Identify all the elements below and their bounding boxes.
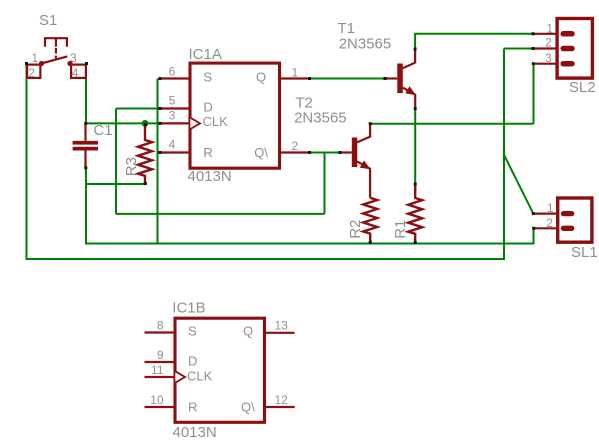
wire: C1 bottom down to ground bus [85,168,87,245]
T1 emitter arrow [405,86,416,95]
switch S1 [27,38,86,78]
wire: SL2 pin3 vertical [533,64,535,124]
S1 actuator stem [55,38,57,47]
pin endpoint tick SL2 pin1 [532,32,535,35]
wire: ground bus horizontal [86,243,534,245]
pin endpoint tick C1 top [84,122,87,125]
svg-text:9: 9 [157,348,164,362]
wire: up to SL1 pin2 [533,228,535,244]
IC1A pin 6 stub (S) [160,77,190,79]
pin endpoint tick T1 collector [414,48,417,51]
pin endpoint tick R1 bottom [414,241,417,244]
pin endpoint tick T2 base [339,151,342,154]
pin endpoint tick SL2 pin2 [532,47,535,50]
svg-text:3: 3 [545,51,552,65]
IC1B pin 12 stub (Q\) [265,406,295,408]
svg-text:8: 8 [157,319,164,333]
svg-text:Q: Q [243,324,253,339]
pin endpoint tick R3 top [144,123,147,126]
wire: diagonal to SL1 pin1 [504,155,533,214]
svg-text:2: 2 [28,66,35,80]
IC1A body box [190,63,280,168]
IC1B CLK triangle [175,371,185,382]
svg-text:3: 3 [70,51,77,65]
svg-text:IC1B: IC1B [172,300,205,317]
svg-text:13: 13 [275,319,289,333]
T2 base lead [340,151,352,153]
svg-text:11: 11 [151,363,164,377]
SL2 pin2 contact bar [563,46,572,52]
pin endpoint tick R3 bottom [144,182,147,185]
C1 top plate [73,141,98,145]
svg-text:R1: R1 [392,220,409,239]
IC1A CLK triangle [190,118,200,129]
resistor R2 [363,198,377,242]
pin endpoint tick T1 emitter [414,107,417,110]
T2 emitter lead [357,162,370,198]
svg-text:SL1: SL1 [571,244,598,261]
S1 pin2 box [27,65,40,78]
svg-text:S1: S1 [39,12,57,29]
wire: S1 pin2 down left side [26,64,28,260]
svg-text:5: 5 [169,94,176,108]
pin endpoint tick C1 bottom [84,166,87,169]
SL2 pin2 stub [533,47,557,49]
svg-text:D: D [188,353,197,368]
pin endpoint tick T2 collector [369,122,372,125]
IC1A 4013N flip-flop [160,63,310,168]
IC1A pin 4 stub (R) [160,151,190,153]
svg-text:1: 1 [292,66,299,80]
SL1 pin2 contact bar [564,226,572,231]
IC1B pin 13 stub (Q) [265,332,295,334]
pin endpoint tick R1 top [414,183,417,186]
SL2 pin1 contact bar [563,31,572,37]
svg-text:4013N: 4013N [173,424,217,441]
IC1B body box [175,318,265,422]
pin endpoint tick R2 bottom [369,241,372,244]
SL2 body box [557,19,592,79]
S1 lever pin1 to over pin3 [41,56,68,63]
wire: T1 collector to SL2 pin1 [414,33,533,35]
T2 emitter arrow [360,160,371,169]
C1 bottom lead [84,150,86,168]
pin endpoint tick IC1A pin4 [159,151,162,154]
IC1B pin 10 stub (R) [145,406,176,408]
svg-text:S: S [188,324,197,339]
pin endpoint tick IC1A pin1 [308,77,311,80]
pin endpoint tick T1 base [384,77,387,80]
svg-text:R: R [203,145,212,160]
transistor T2 2N3565 [340,124,370,198]
junction dot on CLK net at R3 top [142,120,149,127]
C1 top lead [84,123,86,140]
svg-text:Q\: Q\ [241,399,255,414]
svg-text:2: 2 [292,139,299,153]
pin endpoint tick SL1 pin1 [532,212,535,215]
svg-text:12: 12 [275,393,289,407]
S1 actuator bracket [45,38,67,47]
S1 contact dot pin1 [39,61,44,66]
pin endpoint tick IC1A pin5 [159,107,162,110]
svg-text:2: 2 [545,36,552,50]
capacitor C1 [73,123,98,167]
wire: ground-right bus bottom to SL2 pin2 net [26,258,505,260]
svg-text:2N3565: 2N3565 [294,110,347,127]
IC1B pin 8 stub (S) [145,331,176,333]
connector SL1 [533,198,592,242]
wire: CLK net horizontal C1 to IC1A pin3 [86,122,160,124]
SL1 pin1 stub [533,213,558,215]
T2 base bar [352,138,358,168]
wire: vertical up to SL2 pin2 [503,49,505,261]
svg-text:1: 1 [546,21,553,35]
C1 bottom plate [73,147,98,151]
SL1 body box [558,198,592,242]
svg-text:2: 2 [546,216,553,230]
IC1A pin 1 stub (Q) [280,77,310,79]
wire: T1 emitter down to R1 [414,109,416,184]
connector SL2 [533,19,593,79]
SL2 pin3 contact bar [563,61,572,67]
wire: branch up to Q\ line [324,153,326,214]
IC1B pin 11 stub (CLK) [145,376,176,378]
T1 emitter lead [403,88,415,109]
pin endpoint tick SL1 pin2 [532,227,535,230]
svg-text:4013N: 4013N [188,168,232,185]
wire: D pin horizontal [116,108,160,110]
svg-text:CLK: CLK [203,114,229,129]
T1 base lead [385,77,397,79]
svg-text:4: 4 [169,138,176,152]
svg-text:2N3565: 2N3565 [339,35,392,52]
S1 actuator dashed link [55,48,57,54]
T1 collector lead [403,49,415,68]
wire: D net vertical down [115,109,117,214]
SL1 pin2 stub [534,227,558,229]
S1 pin4 box [71,65,86,78]
svg-text:1: 1 [547,201,554,215]
pin endpoint tick SL2 pin3 [532,62,535,65]
wire: T1 collector up [414,34,416,49]
pin endpoint tick S1 pin2 [25,62,28,65]
wire: C1 bottom to R3 bottom [86,183,145,185]
svg-text:6: 6 [169,65,176,79]
transistor T1 2N3565 [385,49,416,109]
wire: Q pin to T1 base [310,78,385,80]
wire: T2 collector to SL2 pin3 [370,123,533,125]
svg-text:R3: R3 [123,157,140,176]
svg-text:R2: R2 [347,220,364,239]
IC1A pin 3 stub (CLK) [160,122,190,124]
svg-text:3: 3 [169,109,176,123]
pin endpoint tick IC1A pin6 [159,77,162,80]
IC1A pin 2 stub (Q\) [280,151,310,153]
svg-text:S: S [203,70,212,85]
SL2 pin3 stub [533,63,557,65]
svg-text:1: 1 [32,51,39,65]
T2 collector lead [357,124,370,143]
svg-text:CLK: CLK [187,368,213,383]
SL2 pin1 stub [533,33,557,35]
wire: S and R pins vertical to ground bus [157,79,159,245]
IC1B pin 9 stub (D) [145,361,176,363]
svg-text:10: 10 [150,393,164,407]
wire: to SL2 pin2 [504,48,533,50]
SL1 pin1 contact bar [564,211,572,216]
svg-text:D: D [203,99,212,114]
pin endpoint tick S1 pin4 [85,62,88,65]
svg-text:Q: Q [256,70,266,85]
IC1B 4013N flip-flop [145,318,295,422]
wire: S1 pin4 down to C1 top [85,64,87,124]
T1 base bar [397,64,403,94]
pin endpoint tick IC1A pin3 [159,122,162,125]
svg-text:Q\: Q\ [254,145,268,160]
pin endpoint tick IC1A pin2 [308,151,311,154]
wire: Q\ pin to T2 base [310,152,340,154]
IC1A pin 5 stub (D) [160,107,190,109]
wire: D net horizontal to Q\ branch [116,213,325,215]
svg-text:R: R [188,399,197,414]
svg-text:SL2: SL2 [569,79,596,96]
S1 contact dot pin3 [67,61,72,66]
svg-text:4: 4 [72,66,79,80]
resistor R1 [408,184,422,242]
svg-text:C1: C1 [93,122,112,139]
resistor R3 [138,125,152,183]
svg-text:IC1A: IC1A [189,46,222,63]
